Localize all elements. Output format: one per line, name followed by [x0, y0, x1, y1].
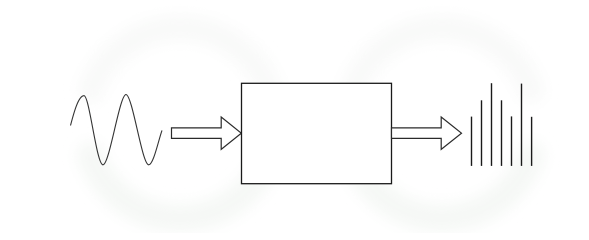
watermark ring left — [91, 28, 270, 218]
spectrum line 4 — [501, 100, 503, 166]
spectrum line 6 — [521, 84, 523, 166]
spectrum line 5 — [511, 116, 513, 165]
block arrow 2 (box to output) — [392, 117, 462, 149]
spectrum line 1 — [471, 117, 473, 166]
spectrum line 7 — [531, 117, 533, 166]
process box — [242, 83, 392, 183]
block arrow 1 (input to box) — [172, 117, 242, 149]
spectrum line 3 — [491, 83, 493, 166]
spectrum line 2 — [481, 100, 483, 166]
sine wave input signal — [71, 95, 163, 165]
watermark ring right — [353, 28, 532, 218]
